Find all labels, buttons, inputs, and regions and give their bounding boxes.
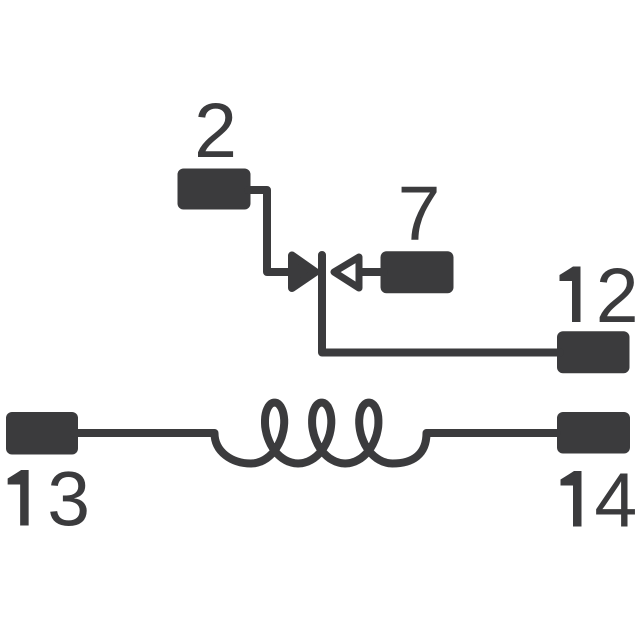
svg-text:2: 2: [194, 88, 237, 174]
svg-text:3: 3: [47, 457, 90, 543]
svg-text:4: 4: [594, 458, 637, 544]
svg-text:7: 7: [398, 171, 441, 257]
svg-text:2: 2: [596, 253, 639, 339]
